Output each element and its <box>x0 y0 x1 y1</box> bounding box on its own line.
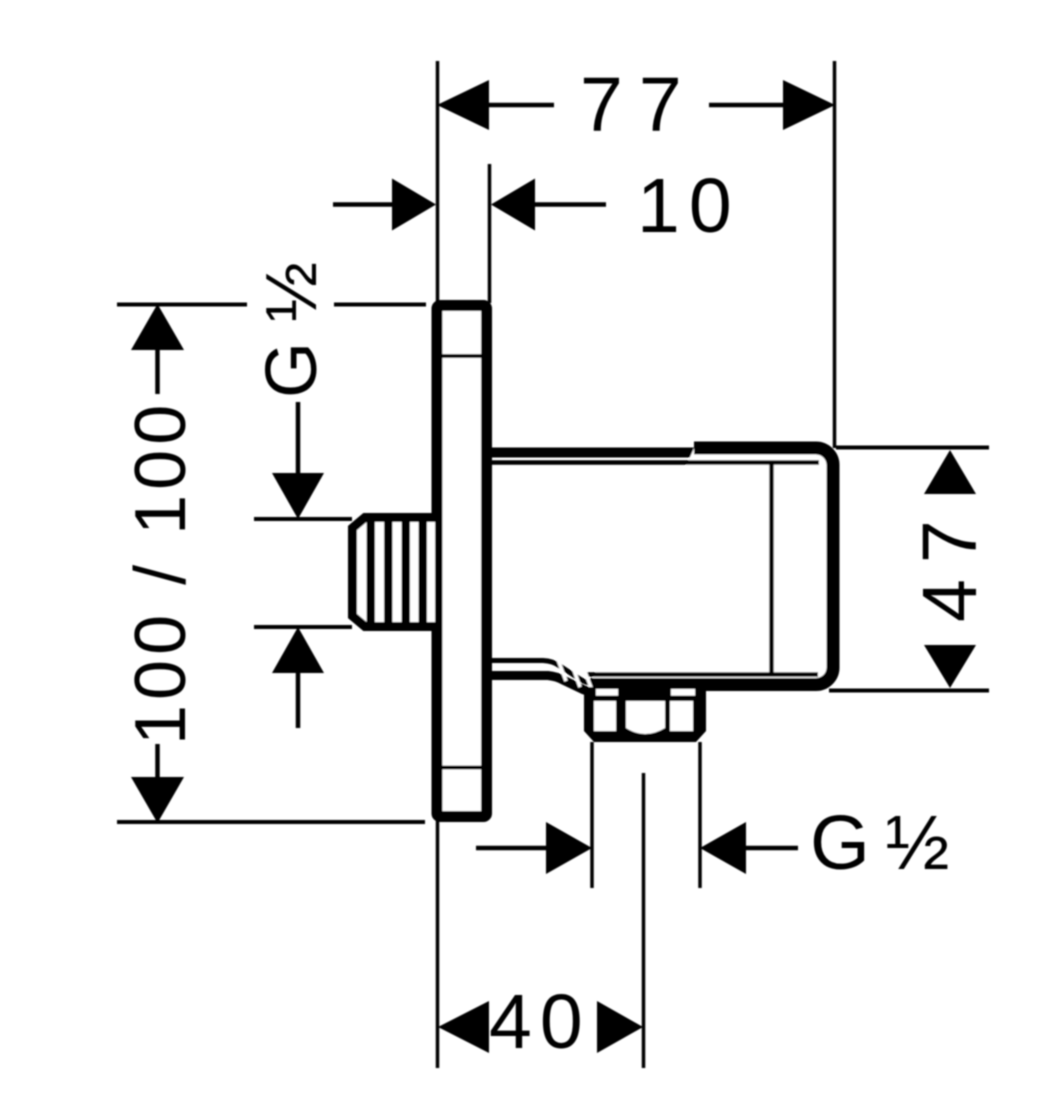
nut window center <box>626 701 665 734</box>
nut top slit right <box>671 689 695 696</box>
wall plate <box>437 306 487 817</box>
pipe thread bar 5 <box>435 521 442 623</box>
extension line plate-back <box>488 164 492 303</box>
extension line nut-right <box>698 742 702 888</box>
wall plate inner bottom line <box>440 766 484 770</box>
extension line body-right <box>833 61 837 448</box>
svg-text:G ½: G ½ <box>810 800 948 886</box>
pipe thread bar 2 <box>384 521 393 623</box>
nut window left <box>594 701 616 731</box>
dimension G 1/2 left <box>252 262 352 728</box>
extension line nut-left <box>590 742 594 888</box>
wall plate inner top line <box>440 354 484 358</box>
threaded pipe <box>353 518 442 627</box>
body inner top line <box>490 460 819 465</box>
body chamfer thick line <box>490 676 594 693</box>
svg-text:10: 10 <box>637 163 741 249</box>
dimension 77 <box>437 62 835 148</box>
dimension 40 <box>438 979 643 1065</box>
nut top slit left <box>596 689 618 696</box>
svg-text:77: 77 <box>580 62 698 148</box>
chamfer hatch white stripes <box>557 657 592 690</box>
dimension 100/100 <box>117 304 426 823</box>
dimension G 1/2 bottom <box>476 800 948 886</box>
extension line plate-front (left, lower part) <box>436 820 440 1068</box>
body chamfer thin line <box>490 661 592 684</box>
pipe thread bar 3 <box>402 521 411 623</box>
pipe thread bar 1 <box>367 521 376 623</box>
dimension 47 <box>829 448 993 691</box>
extension line plate-front (left, upper part) <box>436 61 440 302</box>
svg-text:100 / 100: 100 / 100 <box>121 400 201 745</box>
body inner bottom line <box>586 672 818 677</box>
body top-left edge <box>489 448 700 458</box>
pipe thread bar 4 <box>419 521 428 623</box>
svg-text:G ½: G ½ <box>252 262 332 398</box>
body outline right <box>590 448 833 685</box>
nut window right <box>670 701 693 731</box>
svg-text:47: 47 <box>907 504 993 622</box>
dimension 10 <box>333 163 741 249</box>
hex nut <box>584 687 706 742</box>
extension line nut-center <box>642 773 646 1068</box>
svg-text:40: 40 <box>489 979 591 1065</box>
body inner vertical line <box>769 464 774 674</box>
